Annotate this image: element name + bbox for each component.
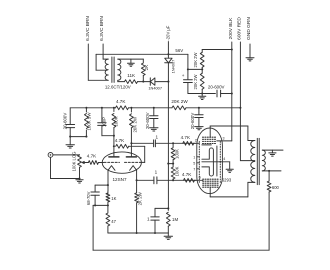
junction bias cap bottom bbox=[154, 232, 156, 234]
resistor 100K (lower grid return) bbox=[172, 164, 174, 167]
potentiometer 100K LOG bbox=[79, 154, 81, 156]
wire V1b grid stub bbox=[141, 161, 145, 163]
junction 100K top bbox=[113, 107, 115, 109]
svg-text:4.7K: 4.7K bbox=[87, 153, 97, 158]
svg-text:4.7K: 4.7K bbox=[115, 138, 125, 143]
V1 plate 2 bar bbox=[126, 156, 136, 158]
T2 core line 2 bbox=[258, 138, 260, 184]
V2 grid 2 (dotted) bbox=[219, 142, 221, 185]
transformer T1 secondary coil bbox=[118, 59, 121, 80]
junction 600 ohm tap bbox=[268, 170, 270, 172]
svg-text:+: + bbox=[182, 73, 185, 78]
wire to OPT primary top bbox=[248, 140, 255, 142]
ground (mid filter cap) bbox=[150, 127, 158, 129]
junction 2K bottom bbox=[142, 81, 144, 83]
svg-text:4.7K: 4.7K bbox=[116, 99, 126, 104]
wire 6.3VC lead 1 to T1 primary bottom bbox=[88, 79, 108, 81]
wire pin 4 drop bbox=[229, 162, 231, 169]
wire plate1 node down to tube bbox=[113, 136, 115, 153]
junction 200V/bleeder top bbox=[231, 48, 233, 50]
V2 grid 1 (dotted) bbox=[198, 142, 200, 185]
wire 4.7K to pin 6 bbox=[195, 179, 203, 181]
svg-text:100P: 100P bbox=[102, 117, 107, 127]
svg-text:100K: 100K bbox=[175, 149, 180, 159]
V2 heater hairpin upper bbox=[202, 148, 214, 162]
wire B+ rail right section bbox=[186, 107, 240, 109]
wire pin 3 to 200V lead bbox=[217, 140, 232, 142]
junction plate1/4.7K bbox=[113, 145, 115, 147]
resistor 20K 2W (B+ rail series) bbox=[172, 106, 186, 110]
svg-text:-20V µF: -20V µF bbox=[165, 25, 170, 40]
wire 11K to diode D1 bbox=[138, 81, 151, 83]
wire cathode riser bbox=[247, 182, 249, 197]
wire D2 cathode to D1 node bbox=[167, 63, 169, 82]
resistor 4.7K (g1 stopper) bbox=[183, 141, 194, 145]
svg-text:1: 1 bbox=[193, 155, 195, 159]
wire 4.7K to V1b grid riser bbox=[129, 145, 145, 147]
svg-text:100K 5W: 100K 5W bbox=[86, 112, 91, 131]
tube V1 12SN7 envelope bbox=[102, 152, 141, 173]
capacitor 20-600V (series to 200V lead) bbox=[216, 90, 218, 97]
wire bias node to C bias bbox=[155, 207, 168, 209]
ground (GND GRN) bbox=[246, 57, 254, 59]
wire B+ rail mid section bbox=[129, 107, 172, 109]
svg-text:1: 1 bbox=[155, 170, 158, 175]
junction divider midpoint bbox=[172, 163, 174, 165]
capacitor 68-70V (cathode bypass) bbox=[95, 184, 108, 186]
wire to 4.7K grid stopper (bottom) bbox=[173, 179, 196, 181]
V2 cathode lead down bbox=[209, 187, 211, 197]
svg-text:1: 1 bbox=[156, 134, 159, 139]
capacitor 20-600V (mid filter) bbox=[153, 108, 155, 116]
wire feedback bottom run bbox=[93, 249, 269, 251]
resistor 100K 5W bbox=[85, 108, 87, 112]
V2 pin 7 stub bbox=[197, 168, 200, 170]
wire 600V to OPT tap bbox=[240, 160, 254, 162]
svg-text:20K 2W: 20K 2W bbox=[193, 53, 198, 68]
wire C1 to 100K top bbox=[155, 142, 173, 144]
wire 6.3VC lead 2 to T1 primary top bbox=[103, 58, 108, 60]
resistor 20K 2W (plate load V1b) bbox=[130, 108, 132, 112]
ground (main) bbox=[164, 235, 172, 237]
svg-text:1M: 1M bbox=[172, 217, 178, 222]
svg-text:20K 2W: 20K 2W bbox=[193, 75, 198, 90]
V1 grid 1 (dashed) bbox=[104, 161, 120, 163]
wire bias to divider midpoint bbox=[168, 163, 173, 165]
V1 cathode 1 bbox=[108, 166, 115, 171]
wire T2 secondary top bbox=[262, 149, 283, 151]
wire plate2 to coupling cap C1 bbox=[131, 142, 153, 144]
wire jack sleeve to pot bottom bbox=[51, 178, 80, 180]
wire 56V rail bbox=[96, 53, 188, 55]
junction C2/100K bottom bbox=[172, 179, 174, 181]
capacitor 100P bbox=[101, 108, 103, 123]
junction mid filter cap top bbox=[153, 107, 155, 109]
svg-text:5: 5 bbox=[193, 161, 195, 165]
transformer T1 primary coil bbox=[105, 59, 108, 80]
capacitor 1 (coupling C1) bbox=[153, 140, 155, 147]
resistor 600 bbox=[268, 171, 270, 181]
junction bias filter node bbox=[167, 207, 169, 209]
junction output filter cap top bbox=[198, 107, 200, 109]
junction 20K 2W top bbox=[130, 107, 132, 109]
capacitor electrolytic (56V filter) bbox=[187, 69, 189, 79]
V1 plate 1 stem bbox=[113, 152, 115, 157]
junction 100K 5W bottom bbox=[85, 136, 87, 138]
resistor 20K 2W lower bleeder bbox=[201, 69, 203, 73]
svg-text:1: 1 bbox=[147, 216, 150, 221]
junction 2K 2W bottom bbox=[136, 232, 138, 234]
wire 100P bottom to plate node bbox=[102, 135, 114, 137]
junction cap bottom bbox=[94, 204, 96, 206]
wire D2 anode stem bbox=[167, 42, 169, 59]
ground stem (main) bbox=[167, 233, 169, 236]
junction bleeder bottom bbox=[201, 92, 203, 94]
wire 6.3VC lead 2 vertical bbox=[102, 44, 104, 59]
ground (bleeder bottom) bbox=[199, 95, 206, 97]
junction bias line tap bbox=[167, 163, 169, 165]
wire T1 center tap bbox=[96, 69, 107, 71]
wire to OPT primary bottom bbox=[248, 181, 255, 183]
svg-text:47: 47 bbox=[111, 219, 116, 224]
junction pot bottom/ground bbox=[78, 177, 80, 179]
junction plate1 node bbox=[113, 135, 115, 137]
V2 internal mid wire bbox=[202, 161, 217, 163]
V2 pin 5 stub bbox=[197, 162, 200, 164]
wire 600V RED lead bbox=[239, 42, 241, 161]
svg-text:3: 3 bbox=[223, 136, 225, 140]
svg-text:20-600V: 20-600V bbox=[62, 113, 67, 130]
wire bleeder top to 200V lead bbox=[202, 49, 232, 51]
svg-text:100K LOG: 100K LOG bbox=[72, 152, 77, 172]
wire B+ rail left section bbox=[70, 107, 115, 109]
V2 internal rod bbox=[216, 146, 218, 176]
ground (output filter cap) bbox=[195, 126, 203, 128]
junction pin 4 / grid 2 bbox=[219, 161, 221, 163]
input jack J1 bbox=[48, 153, 53, 158]
svg-text:2K: 2K bbox=[144, 64, 149, 71]
svg-text:600: 600 bbox=[272, 185, 280, 190]
resistor 100K (upper grid return) bbox=[172, 143, 174, 147]
resistor 1M bbox=[167, 208, 169, 210]
junction D2 on 56V rail bbox=[167, 53, 169, 55]
svg-text:12SN7: 12SN7 bbox=[112, 177, 126, 182]
svg-text:1K: 1K bbox=[111, 196, 116, 201]
junction 100P top bbox=[101, 107, 103, 109]
ground stem secondary bbox=[271, 150, 273, 153]
junction B+ rail / 600V lead bbox=[239, 107, 241, 109]
svg-text:6.3VC BRN: 6.3VC BRN bbox=[85, 16, 91, 41]
ground (secondary top) bbox=[128, 62, 135, 64]
wire cathode ground rail bbox=[108, 232, 168, 234]
junction C1/100K bbox=[172, 142, 174, 144]
wire to 4.7K grid stopper (top) bbox=[173, 142, 195, 144]
svg-text:4: 4 bbox=[223, 157, 225, 161]
resistor 2K 2W (cathode V1b) bbox=[136, 191, 138, 193]
svg-text:6.3VC BRN: 6.3VC BRN bbox=[99, 16, 105, 41]
diode D1 1N4007 bbox=[149, 78, 151, 85]
wire T1 secondary top bbox=[118, 58, 144, 60]
wire bypass cap bottom / feedback node bbox=[93, 204, 108, 206]
tube V2 6293 envelope bbox=[197, 128, 223, 194]
wire C2 to 100K bottom bbox=[157, 179, 173, 181]
wire grid stopper to V1 grid bbox=[98, 162, 103, 164]
V1 cathode 1 lead down bbox=[107, 170, 109, 191]
wire 4.7K to pin 2 bbox=[194, 142, 200, 144]
ground (pin 4) bbox=[226, 168, 233, 170]
svg-text:56V: 56V bbox=[175, 48, 183, 53]
svg-text:12.6CT/120V: 12.6CT/120V bbox=[105, 84, 131, 89]
svg-text:20K 2W: 20K 2W bbox=[171, 99, 188, 104]
wire secondary bottom drop bbox=[117, 80, 119, 81]
svg-text:6293: 6293 bbox=[222, 177, 232, 182]
resistor 4.7K (interstage) bbox=[116, 144, 129, 148]
wire V2 plate to OPT bbox=[210, 125, 248, 127]
pot wiper arrow bbox=[82, 161, 85, 163]
transformer T2 primary coil bbox=[251, 140, 255, 182]
resistor 20K 2W upper bleeder bbox=[201, 50, 203, 53]
junction node A bbox=[187, 68, 189, 70]
svg-text:100K: 100K bbox=[175, 166, 180, 176]
svg-text:2K 2W: 2K 2W bbox=[137, 191, 142, 205]
wire pin 4 bbox=[217, 161, 230, 163]
capacitor 1 (bias filter) bbox=[154, 208, 156, 216]
svg-text:100K: 100K bbox=[114, 116, 119, 126]
V2 internal top wire bbox=[202, 144, 211, 146]
wire filter bottom rail bbox=[70, 136, 86, 138]
svg-text:1N4007: 1N4007 bbox=[148, 85, 162, 90]
resistor 100K (plate load V1a) bbox=[113, 108, 115, 112]
capacitor 20-600V (input filter) bbox=[69, 108, 71, 125]
wire cap to 200V lead bbox=[221, 93, 232, 95]
V1 cathode 2 bbox=[130, 166, 137, 171]
T2 core line 1 bbox=[256, 138, 258, 184]
V2 plate lead (top) bbox=[209, 126, 211, 137]
junction D1/D2/bias line bbox=[167, 81, 169, 83]
junction 1K/47 bbox=[107, 204, 109, 206]
ground (pot) bbox=[76, 179, 83, 181]
wire plate drop to OPT top bbox=[247, 126, 249, 141]
wire center tap riser bbox=[95, 54, 97, 70]
transformer T2 secondary coil bbox=[262, 150, 265, 171]
svg-text:1N4007: 1N4007 bbox=[171, 60, 176, 74]
svg-text:4.7K: 4.7K bbox=[181, 135, 191, 140]
V2 heater hairpin lower bbox=[202, 162, 214, 176]
wire bias line (D1 node down) bbox=[167, 82, 169, 209]
wire 6.3VC lead 1 vertical bbox=[87, 44, 89, 80]
svg-text:GND GRN: GND GRN bbox=[246, 17, 252, 40]
svg-text:7: 7 bbox=[193, 167, 195, 171]
wire V1b grid riser bbox=[144, 146, 146, 162]
svg-text:600V RED: 600V RED bbox=[236, 17, 242, 40]
V2 plate box (dotted) bbox=[203, 136, 217, 138]
resistor 2K bbox=[142, 59, 144, 62]
V1 grid 2 (dashed) bbox=[125, 161, 142, 163]
ground stem (bleeder bottom) bbox=[201, 94, 203, 97]
resistor 4.7K (B+ rail) bbox=[116, 106, 129, 110]
junction cathode2/C2 bbox=[136, 179, 138, 181]
junction filter ground rail bbox=[69, 136, 71, 138]
T1 core line 1 bbox=[111, 57, 113, 82]
wire D1 anode to bias line bbox=[155, 81, 169, 83]
ground (filter) bbox=[66, 144, 74, 146]
wire jack sleeve down bbox=[50, 157, 52, 178]
wire T2 secondary bottom bbox=[262, 170, 281, 172]
capacitor 20-600V (output filter) bbox=[198, 108, 200, 115]
resistor 4.7K (input grid stopper) bbox=[85, 162, 88, 164]
svg-text:68-70V: 68-70V bbox=[86, 191, 91, 205]
svg-text:11K: 11K bbox=[127, 73, 136, 78]
wire 56V rail corner down bbox=[187, 54, 189, 69]
diode D2 1N4007 bbox=[165, 58, 172, 63]
junction 100K 5W top bbox=[85, 107, 87, 109]
resistor 11K bbox=[125, 80, 138, 84]
wire secondary bottom bbox=[118, 81, 125, 83]
junction bleeder midpoint bbox=[201, 68, 203, 70]
wire feedback riser bbox=[92, 205, 94, 250]
V1 plate 2 stem bbox=[130, 152, 132, 157]
wire cathode2 to coupling cap C2 bbox=[137, 179, 154, 181]
ground stem on secondary top bbox=[130, 59, 132, 63]
wire cathode to OPT bottom bbox=[210, 196, 248, 198]
V1 plate 1 bar bbox=[109, 156, 119, 158]
junction cathode/bypass cap bbox=[107, 184, 109, 186]
junction plate2 / coupling cap bbox=[130, 142, 132, 144]
wire node A to bleeder midpoint bbox=[188, 68, 202, 70]
wire bleeder bottom rail bbox=[188, 93, 216, 95]
capacitor 1 (coupling C2) bbox=[153, 177, 155, 184]
svg-text:20K 2W: 20K 2W bbox=[132, 116, 137, 132]
svg-text:20-600V: 20-600V bbox=[145, 112, 150, 129]
wire jack to pot top bbox=[53, 154, 80, 156]
resistor 4.7K (g3 stopper) bbox=[184, 178, 195, 182]
resistor 47 bbox=[106, 213, 110, 226]
T1 core line 2 bbox=[113, 57, 115, 82]
svg-text:200V BLK: 200V BLK bbox=[228, 17, 234, 39]
svg-text:20-600V: 20-600V bbox=[208, 85, 225, 90]
ground (T2 secondary) bbox=[269, 152, 276, 154]
resistor 1K bbox=[107, 191, 109, 194]
V2 pin 1 stub bbox=[197, 156, 200, 158]
junction 200V lead / cap bbox=[231, 92, 233, 94]
V2 beam plate box (dotted) bbox=[203, 178, 219, 180]
wire GND GRN lead bbox=[249, 44, 251, 58]
svg-text:4.7K: 4.7K bbox=[182, 172, 192, 177]
wire 200V BLK lead bbox=[231, 42, 233, 141]
V1 cathode 2 lead down bbox=[136, 170, 138, 191]
